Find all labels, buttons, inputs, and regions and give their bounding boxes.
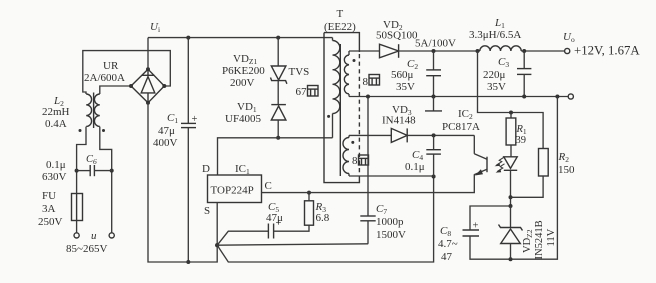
wire VD3 line from feedback winding <box>349 134 391 136</box>
svg-text:IN4148: IN4148 <box>382 115 416 127</box>
svg-text:150: 150 <box>558 164 575 176</box>
svg-text:220μ: 220μ <box>483 69 506 81</box>
wire feedback sense tap down to R1 R2 <box>478 51 544 149</box>
opto LED <box>504 157 517 171</box>
wire fuse to C6 node <box>76 171 78 194</box>
node source S <box>215 243 219 247</box>
svg-text:6.8: 6.8 <box>316 212 330 224</box>
node return minus tap <box>555 95 559 99</box>
capacitor C7 wire top <box>367 97 369 217</box>
svg-text:TOP224P: TOP224P <box>211 185 254 197</box>
svg-text:47μ: 47μ <box>266 212 283 224</box>
node bridge bottom <box>146 101 150 105</box>
svg-text:1000p: 1000p <box>376 216 404 228</box>
svg-text:D: D <box>202 163 210 175</box>
svg-text:50SQ100: 50SQ100 <box>376 30 418 42</box>
svg-text:0.1μ: 0.1μ <box>46 159 66 171</box>
wire LED cathode down <box>510 170 512 206</box>
resistor R3 <box>305 201 314 225</box>
svg-text:0.1μ: 0.1μ <box>405 161 425 173</box>
capacitor C1 electrolytic <box>181 114 198 128</box>
node R1 top <box>509 111 513 115</box>
wire choke left top over bridge to right AC vertex <box>83 51 171 94</box>
IC1 TOP224P <box>208 175 262 203</box>
svg-text:UR: UR <box>103 60 119 72</box>
common-mode choke L2 right winding <box>94 94 99 126</box>
wire C1 down to bottom rail <box>187 128 189 262</box>
polarity dot choke right <box>102 129 105 132</box>
AC input terminal right <box>109 233 114 238</box>
wire right terminal up <box>111 171 113 233</box>
svg-text:S: S <box>204 205 210 217</box>
wire C2 bottom to return <box>433 76 435 97</box>
svg-text:250V: 250V <box>38 216 63 228</box>
node return C7 tap <box>366 95 370 99</box>
wire R3 top to C pin line <box>308 193 310 201</box>
wire top rail Ui <box>148 37 333 39</box>
wire bridge top to Ui rail corner <box>147 38 149 70</box>
svg-text:TVS: TVS <box>289 66 310 78</box>
svg-text:85~265V: 85~265V <box>66 243 107 255</box>
svg-text:+12V, 1.67A: +12V, 1.67A <box>574 44 640 58</box>
svg-text:200V: 200V <box>230 77 255 89</box>
wire left terminal to fuse <box>76 221 78 233</box>
wire zener top <box>510 206 512 228</box>
resistor R2 <box>539 149 549 177</box>
wire opto collector up to VD3 line <box>473 135 475 153</box>
node LED C8 junction <box>509 204 513 208</box>
capacitor C2 <box>426 70 441 76</box>
primary winding 67 turns <box>333 38 340 138</box>
wire choke right top to bridge left AC vertex <box>100 86 131 94</box>
wire secondary return line <box>349 96 568 98</box>
svg-text:C: C <box>265 180 272 192</box>
secondary winding 8 turns top <box>344 51 349 97</box>
svg-text:2A/600A: 2A/600A <box>84 72 125 84</box>
diode VD2 50SQ100 <box>380 44 399 58</box>
feedback winding 8 turns bottom <box>343 135 349 176</box>
wire R1 to LED <box>510 145 512 157</box>
diode VD1 UF4005 <box>271 105 286 120</box>
svg-text:(EE22): (EE22) <box>324 21 356 33</box>
output terminal minus <box>568 94 573 99</box>
wire C2 top <box>433 51 435 70</box>
svg-text:630V: 630V <box>42 171 67 183</box>
node zener bottom <box>509 257 513 261</box>
svg-text:35V: 35V <box>487 81 506 93</box>
wire VD1 anode to drain node <box>277 120 279 138</box>
svg-text:3A: 3A <box>42 203 56 215</box>
wire rail down to C1 <box>187 38 189 124</box>
transformer isolation dashed line <box>358 54 360 175</box>
svg-text:8: 8 <box>352 155 358 167</box>
svg-text:39: 39 <box>516 135 527 146</box>
node bridge left <box>129 84 133 88</box>
svg-text:IN5241B: IN5241B <box>534 220 545 259</box>
resistor R1 <box>506 118 516 145</box>
polarity dot feedback winding <box>351 141 354 144</box>
output terminal plus <box>565 48 570 53</box>
wire VD2 cathode to L1 <box>399 50 480 52</box>
node C2 top <box>432 49 436 53</box>
wire feedback winding bottom to C4 bottom node <box>349 175 434 177</box>
wire C6 node up to choke right winding <box>100 127 112 171</box>
node R3 on C line <box>307 191 311 195</box>
bridge rectifier UR <box>131 69 164 103</box>
node rail clamp tap <box>276 36 280 40</box>
wire C6 node up to choke left winding <box>77 127 86 171</box>
node C6 left <box>75 169 79 173</box>
AC input terminal left <box>74 233 79 238</box>
wire C4 bottom <box>433 154 435 176</box>
capacitor C5 electrolytic <box>268 218 281 239</box>
transformer T box outline <box>324 33 359 183</box>
wire bridge bottom down and along bottom rail <box>148 103 217 262</box>
node drain clamp junction <box>276 136 280 140</box>
capacitor C4 <box>426 150 441 154</box>
common-mode choke L2 left winding <box>86 94 91 126</box>
capacitor C8 electrolytic <box>463 221 480 237</box>
node rail C1 tap <box>186 36 190 40</box>
svg-text:FU: FU <box>42 190 56 202</box>
node C2 return <box>432 95 436 99</box>
svg-text:+: + <box>473 221 479 232</box>
svg-text:8: 8 <box>363 76 369 88</box>
wire C5 to R3 bottom <box>274 225 309 231</box>
glyph turn char secondary <box>369 75 380 86</box>
zener diode VDz2 IN5241B <box>499 225 523 260</box>
svg-text:35V: 35V <box>396 81 415 93</box>
polarity dot secondary top <box>353 59 356 62</box>
wire VD3 cathode to opto collector <box>407 134 474 136</box>
phototransistor IC2 <box>474 154 487 176</box>
svg-text:PC817A: PC817A <box>442 121 480 133</box>
node C3 top <box>522 49 526 53</box>
glyph turn char for 67 <box>308 86 319 97</box>
node LED R2 junction <box>509 195 513 199</box>
ground stub below C2 <box>425 97 442 111</box>
wire secondary top to VD2 <box>349 50 380 52</box>
polarity dot choke left <box>79 129 82 132</box>
svg-text:11V: 11V <box>546 228 557 246</box>
wire L1 to plus terminal <box>521 50 564 52</box>
fuse FU <box>72 194 83 221</box>
svg-text:47: 47 <box>441 251 453 263</box>
polarity dot primary <box>327 115 330 118</box>
node C3 return <box>522 95 526 99</box>
wire VDz1 to VD1 <box>277 81 279 105</box>
wire drain line <box>218 138 333 175</box>
svg-text:47μ: 47μ <box>158 125 175 137</box>
node bridge top <box>146 67 150 71</box>
transformer core <box>339 44 341 176</box>
node C4 top <box>432 133 436 137</box>
node L1 left feedback tap <box>476 49 480 53</box>
node bridge right <box>162 84 166 88</box>
svg-text:4.7~: 4.7~ <box>438 238 458 250</box>
node C6 right <box>110 169 114 173</box>
svg-text:560μ: 560μ <box>391 69 414 81</box>
wire S pin down to source node <box>216 203 218 246</box>
node bottom rail C1 <box>186 260 190 264</box>
wire R2 bottom to LED node <box>511 176 544 197</box>
TVS diode VDz1 P6KE200 <box>271 66 287 84</box>
svg-text:0.4A: 0.4A <box>45 118 67 130</box>
capacitor C6 <box>77 165 112 176</box>
wire C4 top <box>433 135 435 149</box>
svg-text:T: T <box>337 8 344 20</box>
svg-text:UF4005: UF4005 <box>225 113 262 125</box>
wire S node to primary return <box>217 177 433 263</box>
wire C3 bottom to return <box>523 74 525 96</box>
wire C pin line to opto emitter <box>262 174 475 192</box>
capacitor C3 <box>517 69 531 75</box>
wire C3 <box>523 51 525 69</box>
svg-text:67: 67 <box>296 86 308 98</box>
capacitor C7 <box>360 216 375 221</box>
svg-text:5A/100V: 5A/100V <box>415 38 456 50</box>
wire C8 bottom to feedback return <box>470 97 557 260</box>
node feedback return C4 <box>432 175 436 179</box>
svg-text:400V: 400V <box>153 137 178 149</box>
svg-text:22mH: 22mH <box>42 106 70 118</box>
inductor L1 <box>480 46 521 51</box>
wire R1 top <box>510 113 512 119</box>
wire S node to C7 bottom <box>217 244 368 245</box>
wire C8 branch from LED node <box>470 206 511 230</box>
svg-text:+: + <box>192 114 198 125</box>
svg-text:3.3μH/6.5A: 3.3μH/6.5A <box>469 29 521 41</box>
wire S node to C5 branch <box>217 231 268 245</box>
choke L2 core <box>93 93 95 129</box>
svg-text:1500V: 1500V <box>376 229 406 241</box>
wire C7 bottom <box>367 221 369 244</box>
svg-text:P6KE200: P6KE200 <box>222 65 265 77</box>
wire clamp branch from rail <box>277 38 279 66</box>
svg-text:u: u <box>91 230 97 242</box>
glyph turn char feedback <box>359 155 369 165</box>
diode VD3 1N4148 <box>391 128 407 142</box>
light arrows <box>495 158 505 173</box>
